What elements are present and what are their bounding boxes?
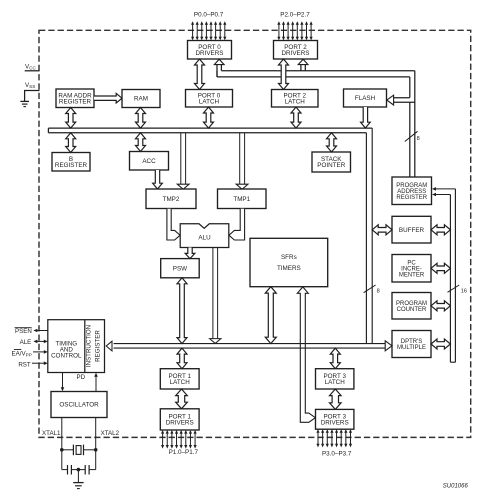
arrow pc incrementer to address bar: [431, 263, 450, 273]
pin ALE: [20, 339, 48, 346]
arrow program bus to port 0 drivers: [214, 59, 224, 77]
svg-text:REGISTER: REGISTER: [396, 195, 427, 201]
svg-text:FLASH: FLASH: [355, 95, 376, 102]
label PD: [76, 374, 85, 381]
svg-text:MENTER: MENTER: [399, 272, 425, 278]
svg-text:P2.0–P2.7: P2.0–P2.7: [280, 12, 310, 19]
arrow program bus to flash: [387, 95, 415, 105]
svg-text:OSCILLATOR: OSCILLATOR: [59, 402, 99, 409]
arrow tmp2 to alu: [167, 209, 180, 240]
svg-text:8: 8: [377, 288, 380, 294]
svg-text:SU01066: SU01066: [443, 484, 469, 490]
internal bus wire (vertical pair down to instruction bus): [366, 128, 372, 344]
wire alu to instruction bus (hollow path): [210, 248, 221, 344]
figure id SU01066: [443, 484, 469, 490]
alu U-ALU: [180, 224, 229, 248]
svg-text:RAM: RAM: [134, 96, 148, 103]
instruction bus wire (horizontal pair): [114, 344, 386, 349]
arrow buffer to address bar: [431, 225, 450, 235]
arrow port 2 drivers to port 2 latch: [279, 59, 289, 90]
svg-text:ALU: ALU: [198, 235, 211, 242]
program address register U-PAR: [392, 177, 432, 205]
svg-text:VSS: VSS: [25, 82, 35, 89]
arrow port 0 drivers to port 0 latch: [195, 59, 205, 90]
svg-text:XTAL2: XTAL2: [101, 430, 120, 437]
svg-text:DRIVERS: DRIVERS: [196, 50, 224, 57]
arrow psw to instruction bus: [177, 278, 187, 344]
ground symbol (Vss): [20, 101, 29, 106]
port 3 pin arrows: [316, 429, 352, 447]
wire timing-control PD to oscillator: [61, 373, 65, 392]
svg-text:VCC: VCC: [25, 64, 36, 71]
label P2.0-P2.7: [280, 12, 310, 19]
timing and control + instruction register U-TC: [48, 320, 105, 373]
svg-text:PROGRAM: PROGRAM: [396, 301, 427, 307]
wire oscillator xtal2 leg: [95, 418, 97, 470]
arrowhead instruction bus to instruction register: [106, 341, 112, 351]
wires to program address register (from address bar): [432, 187, 455, 196]
svg-text:P1.0–P1.7: P1.0–P1.7: [169, 449, 199, 456]
svg-text:8: 8: [417, 136, 420, 142]
program bus wire (vertical pair to program address register): [410, 71, 415, 177]
junction dot xtal1: [60, 448, 64, 452]
psw U-PSW: [161, 259, 200, 278]
b register U-BREG: [52, 153, 90, 172]
svg-text:DRIVERS: DRIVERS: [321, 420, 349, 427]
arrow dptr to address bar: [431, 339, 450, 349]
crystal Y1: [62, 445, 96, 456]
sfrs timers U-SFR: [250, 238, 328, 286]
label XTAL2: [101, 430, 120, 437]
svg-text:REGISTER: REGISTER: [95, 330, 102, 362]
arrow sfrs to port 3 drivers (elbow): [297, 287, 315, 422]
port 0 latch U-P0L: [186, 90, 233, 108]
arrow ram addr register to ram: [94, 93, 122, 103]
arrow bus to stack pointer: [327, 133, 337, 152]
svg-text:LATCH: LATCH: [285, 99, 306, 106]
port 2 latch U-P2L: [272, 90, 319, 108]
oscillator U-OSC: [51, 392, 107, 418]
arrow sfr-bus to buffer: [372, 225, 392, 235]
svg-text:P0.0–P0.7: P0.0–P0.7: [194, 12, 224, 19]
flash U-FLASH: [344, 89, 387, 107]
arrow program counter to address bar: [431, 301, 450, 311]
arrow sfrs to instruction bus: [265, 287, 276, 344]
svg-text:XTAL1: XTAL1: [42, 430, 61, 437]
capacitor C2: [71, 465, 95, 475]
svg-text:SFRs: SFRs: [281, 254, 297, 261]
svg-text:EA/VPP: EA/VPP: [12, 350, 32, 357]
svg-text:PSEN: PSEN: [15, 328, 32, 335]
arrow alu to psw: [185, 248, 195, 259]
svg-text:MULTIPLE: MULTIPLE: [397, 345, 426, 351]
program bus wire (horizontal pair): [217, 71, 415, 77]
svg-text:P3.0–P3.7: P3.0–P3.7: [322, 451, 352, 458]
Vss supply pin: [24, 82, 40, 101]
wire bus to tmp1 (hollow path): [236, 133, 248, 190]
buffer U-BUF: [392, 216, 431, 243]
svg-text:LATCH: LATCH: [170, 379, 191, 386]
address bus bar (right): [450, 189, 455, 362]
svg-text:ALE: ALE: [20, 339, 32, 346]
svg-text:POINTER: POINTER: [317, 162, 345, 169]
pin PSEN (overline): [15, 328, 48, 335]
stack pointer U-SP: [312, 152, 351, 172]
label XTAL1: [42, 430, 61, 437]
label P3.0-P3.7: [322, 451, 352, 458]
svg-text:PSW: PSW: [173, 265, 187, 272]
port 2 drivers U-P2D: [274, 41, 318, 60]
internal data bus (main): [48, 128, 372, 133]
arrow bus to acc: [136, 133, 146, 152]
arrow flash to internal bus: [361, 107, 371, 128]
svg-text:16: 16: [461, 288, 467, 294]
svg-text:REGISTER: REGISTER: [55, 162, 88, 169]
svg-text:LATCH: LATCH: [199, 99, 220, 106]
svg-text:TMP1: TMP1: [233, 196, 250, 203]
junction dot capacitors: [77, 468, 81, 472]
arrow ram addr register to bus: [66, 108, 76, 129]
svg-text:REGISTER: REGISTER: [59, 99, 92, 106]
pin EA/Vpp (overline on EA): [12, 350, 48, 358]
arrow ram to bus: [136, 108, 146, 129]
arrow acc to tmp2: [153, 170, 163, 189]
arrow program bus to port 2 drivers: [298, 59, 308, 70]
tmp2 U-TMP2: [146, 189, 196, 209]
svg-text:INSTRUCTION: INSTRUCTION: [86, 325, 93, 367]
arrow port 1 latch to drivers: [176, 389, 188, 409]
svg-text:DRIVERS: DRIVERS: [282, 50, 310, 57]
svg-text:TIMERS: TIMERS: [277, 265, 301, 272]
svg-text:PD: PD: [76, 374, 85, 381]
bus width slash 8 (sfr bus): [364, 285, 380, 294]
dashed chip boundary: [39, 30, 471, 437]
arrow bus to b register: [66, 133, 76, 153]
arrow port 3 latch to drivers: [330, 389, 342, 409]
svg-text:ACC: ACC: [142, 158, 156, 165]
arrowhead instruction bus to dptr's multiple: [385, 341, 392, 351]
svg-text:COUNTER: COUNTER: [397, 307, 427, 313]
ram address register U-RAR: [56, 89, 94, 108]
arrow port 2 latch to bus: [291, 107, 301, 128]
svg-text:CONTROL: CONTROL: [51, 352, 82, 359]
wire xtal2 clock to instruction register: [94, 373, 98, 392]
port 0 pin arrows: [191, 21, 226, 40]
program counter U-PC: [392, 293, 431, 320]
acc U-ACC: [130, 152, 169, 171]
svg-text:DRIVERS: DRIVERS: [166, 420, 194, 427]
label P0.0-P0.7: [194, 12, 224, 19]
wire bus to tmp2 (hollow path): [177, 133, 189, 190]
port 3 latch U-P3L: [316, 369, 354, 389]
port 1 latch U-P1L: [160, 369, 199, 389]
svg-text:LATCH: LATCH: [325, 379, 346, 386]
pc incrementer U-PCI: [392, 255, 431, 283]
junction dot xtal2: [94, 448, 98, 452]
arrow instruction bus to port 3 latch: [330, 348, 340, 369]
wire oscillator xtal1 leg: [61, 418, 63, 470]
bus width slash 8 (program bus): [405, 131, 420, 142]
port 3 drivers U-P3D: [316, 409, 354, 429]
port 0 drivers U-P0D: [188, 41, 232, 60]
svg-text:TMP2: TMP2: [163, 196, 180, 203]
svg-text:BUFFER: BUFFER: [399, 227, 425, 234]
ground symbol (crystal): [73, 470, 83, 489]
label P1.0-P1.7: [169, 449, 199, 456]
dptr's multiple U-DPTR: [392, 331, 431, 358]
tmp1 U-TMP1: [218, 189, 267, 209]
arrow tmp1 to alu: [229, 209, 245, 240]
port 1 drivers U-P1D: [160, 409, 199, 430]
svg-text:DPTR'S: DPTR'S: [401, 339, 422, 345]
Vcc supply pin: [25, 64, 40, 71]
arrow port 0 latch to bus: [204, 107, 214, 128]
svg-text:RST: RST: [18, 361, 31, 368]
pin RST: [18, 361, 47, 368]
port 1 pin arrows: [161, 430, 197, 449]
arrow instruction bus to port 1 latch: [177, 348, 187, 369]
bus width slash 16: [448, 285, 468, 294]
port 2 pin arrows: [277, 21, 312, 40]
ram U-RAM: [122, 90, 160, 108]
capacitor C1: [62, 465, 72, 475]
